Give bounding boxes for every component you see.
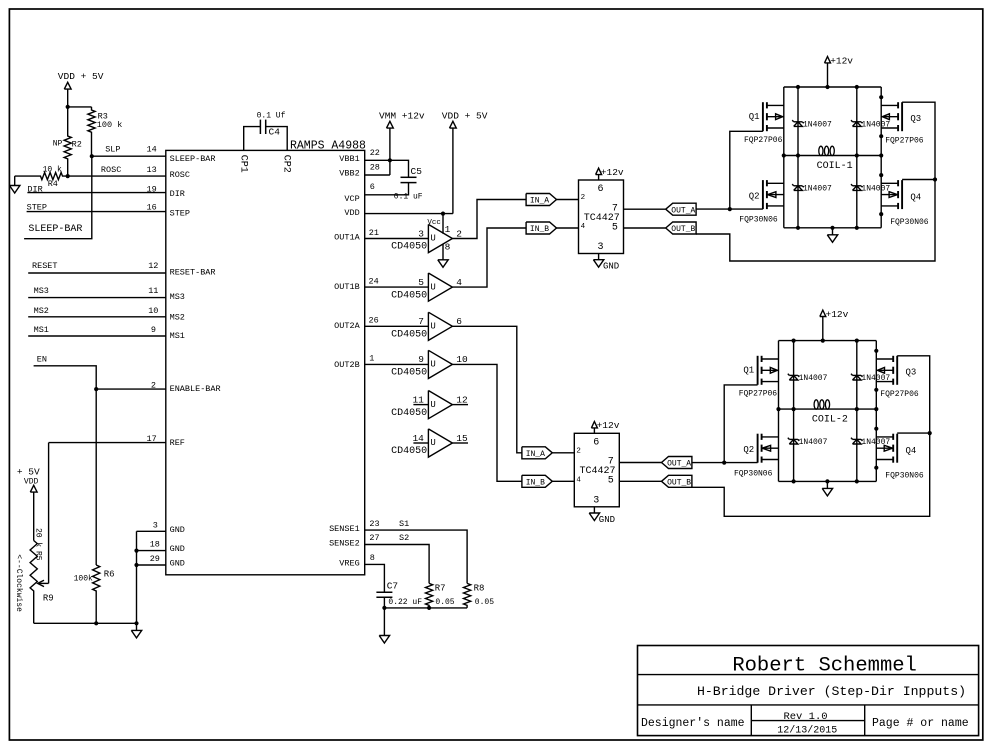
- pin number 26: [369, 316, 379, 326]
- svg-text:U: U: [430, 360, 435, 370]
- wire +12v to TC4427 (U2): [593, 428, 595, 433]
- pin name OUT1B: [334, 282, 360, 292]
- svg-text:Q4: Q4: [910, 193, 921, 203]
- diode D4 1N4007 (bridge 2): [851, 438, 863, 444]
- svg-text:H-Bridge Driver (Step-Dir Inpp: H-Bridge Driver (Step-Dir Inpputs): [697, 684, 966, 699]
- svg-text:S1: S1: [399, 519, 409, 529]
- resistor R6: [93, 565, 100, 623]
- pin name CP1 (rotated): [237, 155, 248, 173]
- diode D3 1N4007 (bridge 2): [851, 374, 863, 380]
- svg-text:Q1: Q1: [743, 366, 754, 376]
- svg-text:MS3: MS3: [34, 286, 49, 296]
- svg-text:1N4007: 1N4007: [803, 185, 832, 194]
- label R2: [72, 140, 82, 150]
- svg-text:9: 9: [418, 354, 424, 365]
- junction OUT_A / Q1 gate: [728, 207, 732, 211]
- svg-text:VCP: VCP: [344, 194, 359, 204]
- junction VDD/R2/R3: [66, 105, 70, 109]
- svg-text:2: 2: [581, 194, 586, 202]
- label Vcc (CD4050): [427, 219, 441, 227]
- title block frame: [638, 646, 979, 736]
- title text Rev 1.0: [783, 711, 827, 723]
- value 1N4007 (D1) (bridge 2): [799, 374, 828, 383]
- value FQP30N06 (Q4) (bridge 1): [890, 218, 929, 227]
- label NP (R2): [53, 140, 63, 149]
- flag OUT_B (U2): [662, 475, 692, 487]
- value FQP27P06 (Q3) (bridge 1): [885, 136, 924, 145]
- svg-text:5: 5: [418, 277, 424, 288]
- pin name ENABLE-BAR: [170, 384, 221, 394]
- pin name OUT1A: [334, 233, 360, 243]
- svg-text:OUT_B: OUT_B: [667, 479, 691, 488]
- svg-text:10: 10: [456, 354, 468, 365]
- svg-text:MS1: MS1: [34, 325, 49, 335]
- wire junction to R3 top: [68, 106, 92, 108]
- pin name SLEEP-BAR: [170, 154, 216, 164]
- wire VCP pin 6 to C5: [365, 183, 409, 195]
- svg-text:IN_A: IN_A: [526, 450, 545, 459]
- transistor Q1 FQP27P06 (bridge 1): [763, 102, 784, 131]
- net label MS1: [34, 325, 49, 335]
- net label MS3: [34, 286, 49, 296]
- pin name OUT2B: [334, 360, 360, 370]
- wire diode column right (bridge 2): [856, 341, 858, 482]
- wire buffer5 output stub: [452, 404, 468, 406]
- pin name MS2: [170, 312, 185, 322]
- junction C7 / ground bus: [382, 606, 386, 610]
- value 1N4007 (D4) (bridge 1): [861, 185, 890, 194]
- wire +12v stem (bridge 1): [827, 63, 829, 87]
- svg-text:RESET-BAR: RESET-BAR: [170, 267, 216, 277]
- svg-text:15: 15: [456, 433, 468, 444]
- svg-text:U: U: [430, 400, 435, 410]
- svg-text:1N4007: 1N4007: [799, 438, 828, 447]
- svg-text:FQP30N06: FQP30N06: [739, 216, 778, 225]
- pin number 21: [369, 228, 379, 238]
- buffer U1a CD4050: [391, 224, 462, 252]
- pin number 8 (VREG): [370, 553, 375, 563]
- flag OUT_A (U1): [666, 203, 696, 215]
- junction right leg / transistor pin (bridge 2): [874, 466, 878, 470]
- junction coil row / right diode column (bridge 1): [855, 153, 859, 157]
- svg-text:MS3: MS3: [170, 292, 185, 302]
- wire left leg (bridge 2): [778, 341, 780, 482]
- svg-text:9: 9: [151, 325, 156, 335]
- svg-text:5: 5: [612, 222, 618, 233]
- junction +12v / top rail (bridge 1): [825, 85, 829, 89]
- svg-text:ENABLE-BAR: ENABLE-BAR: [170, 384, 221, 394]
- wire OUT2B pin 1: [365, 363, 429, 365]
- wire GND bus vertical: [136, 531, 138, 630]
- svg-text:FQP30N06: FQP30N06: [734, 469, 773, 478]
- svg-text:U: U: [430, 322, 435, 332]
- svg-text:1N4007: 1N4007: [861, 185, 890, 194]
- svg-text:6: 6: [456, 316, 462, 327]
- svg-text:SENSE2: SENSE2: [329, 538, 360, 548]
- svg-text:OUT_A: OUT_A: [667, 460, 691, 469]
- wire diode column left (bridge 2): [793, 341, 795, 482]
- pin name SENSE2: [329, 538, 360, 548]
- pin number 7 (U1): [612, 203, 618, 214]
- pin number 3 (U2): [593, 496, 599, 507]
- label C5: [411, 166, 423, 177]
- junction right leg / transistor pin (bridge 2): [874, 349, 878, 353]
- svg-text:100k: 100k: [74, 574, 93, 583]
- wire SLEEP-BAR net: [24, 156, 92, 239]
- svg-text:CD4050: CD4050: [391, 408, 427, 419]
- pin number 13: [146, 165, 156, 175]
- svg-text:U: U: [430, 234, 435, 244]
- svg-text:SLP: SLP: [105, 144, 120, 154]
- pin number 19: [146, 184, 156, 194]
- svg-text:FQP27P06: FQP27P06: [744, 136, 783, 145]
- junction right leg / transistor pin (bridge 1): [879, 212, 883, 216]
- svg-text:+12v: +12v: [601, 167, 624, 178]
- svg-text:VDD + 5V: VDD + 5V: [58, 71, 104, 82]
- junction GND 29: [134, 563, 138, 567]
- svg-text:SLEEP-BAR: SLEEP-BAR: [170, 154, 216, 164]
- pin number 6 (U2): [593, 437, 599, 448]
- label R8: [474, 583, 485, 593]
- resistor R4: [15, 173, 68, 180]
- buffer U1e CD4050 (unused): [391, 391, 468, 419]
- svg-text:1N4007: 1N4007: [799, 374, 828, 383]
- junction R2 bottom / ROSC: [66, 174, 70, 178]
- pin number 3 (GND): [153, 521, 158, 531]
- pin name CP2 (rotated): [280, 155, 291, 173]
- ground symbol (bridge 2): [822, 488, 832, 496]
- svg-text:OUT1B: OUT1B: [334, 282, 360, 292]
- junction +12v / top rail (bridge 2): [821, 339, 825, 343]
- svg-text:R5: R5: [34, 551, 43, 561]
- svg-text:13: 13: [146, 165, 156, 175]
- svg-text:ROSC: ROSC: [170, 170, 190, 180]
- junction OUT_B / Q4 gate: [933, 177, 937, 181]
- ground symbol (CD4050): [438, 260, 448, 268]
- net label STEP: [27, 203, 47, 213]
- wire SENSE2 S2: [365, 545, 429, 584]
- wire top rail (bridge 2): [779, 340, 877, 342]
- wire DIR pin 19: [27, 192, 165, 194]
- svg-text:+12v: +12v: [597, 420, 620, 431]
- value 1N4007 (D4) (bridge 2): [861, 438, 890, 447]
- junction bottom rail / ground (bridge 2): [825, 479, 829, 483]
- power symbol VDD + 5V (top): [450, 121, 457, 128]
- net label VDD + 5V (top): [442, 110, 488, 121]
- svg-text:CP1: CP1: [237, 155, 248, 173]
- junction coil row / right leg (bridge 1): [879, 153, 883, 157]
- value FQP30N06 (Q2) (bridge 1): [739, 216, 778, 225]
- svg-text:CD4050: CD4050: [391, 446, 427, 457]
- svg-text:0.1 Uf: 0.1 Uf: [257, 112, 286, 121]
- net label S2: [399, 533, 409, 543]
- svg-text:10 k: 10 k: [43, 166, 62, 175]
- wire VDD pin: [365, 213, 453, 215]
- wire +12v to TC4427 (U1): [598, 175, 600, 180]
- wire buffer4 out to IN_B coil2: [452, 364, 522, 481]
- resistor R3: [88, 107, 95, 156]
- svg-text:20 k: 20 k: [34, 528, 43, 547]
- svg-text:4: 4: [576, 476, 581, 484]
- wire SENSE1 S1: [365, 530, 467, 583]
- wire OUT_B net routing (bridge 2): [692, 356, 930, 517]
- wire IN_B to pin 4 (U1): [557, 227, 579, 229]
- capacitor C5: [401, 177, 417, 182]
- net label VDD (pot): [24, 478, 39, 487]
- svg-text:IN_A: IN_A: [530, 197, 549, 206]
- diode D2 1N4007 (bridge 1): [792, 184, 804, 190]
- svg-text:0.1 uF: 0.1 uF: [394, 193, 423, 202]
- wire pin 7 to OUT_A flag (U2): [619, 462, 661, 464]
- wire C7 bottom lead: [383, 597, 385, 608]
- svg-text:1N4007: 1N4007: [803, 121, 832, 130]
- svg-text:STEP: STEP: [170, 208, 190, 218]
- wire GND pin 29: [137, 564, 166, 566]
- pin name MS1: [170, 331, 185, 341]
- wire TC4427 gnd (U1): [598, 254, 600, 260]
- svg-text:10: 10: [148, 306, 158, 316]
- pin name VBB1: [339, 154, 359, 164]
- svg-text:Robert Schemmel: Robert Schemmel: [732, 654, 917, 677]
- junction ground bus / gnd stem: [134, 621, 138, 625]
- value FQP27P06 (Q3) (bridge 2): [880, 390, 919, 399]
- svg-text:OUT1A: OUT1A: [334, 233, 360, 243]
- svg-text:VBB2: VBB2: [339, 169, 359, 179]
- svg-text:COIL-1: COIL-1: [817, 161, 853, 172]
- wire buffer5 input stub: [413, 404, 428, 406]
- pin name GND (18): [170, 544, 185, 554]
- diode D2 1N4007 (bridge 2): [788, 438, 800, 444]
- svg-text:29: 29: [150, 554, 160, 564]
- svg-text:CD4050: CD4050: [391, 290, 427, 301]
- junction right leg / transistor pin (bridge 1): [879, 173, 883, 177]
- flag IN_A (U1): [526, 194, 556, 206]
- buffer U1f CD4050 (unused): [391, 429, 468, 457]
- title text Designer's name: [641, 717, 745, 730]
- svg-text:6: 6: [598, 184, 604, 195]
- svg-text:0.22 uF: 0.22 uF: [388, 598, 422, 607]
- svg-text:ROSC: ROSC: [101, 165, 121, 175]
- svg-text:12/13/2015: 12/13/2015: [777, 724, 837, 736]
- svg-text:12: 12: [148, 261, 158, 271]
- pin name VDD: [344, 208, 359, 218]
- value 1N4007 (D1) (bridge 1): [803, 121, 832, 130]
- svg-text:24: 24: [369, 277, 379, 287]
- svg-text:IN_B: IN_B: [526, 479, 545, 488]
- svg-text:+ 5V: + 5V: [17, 467, 40, 478]
- svg-text:27: 27: [369, 533, 379, 543]
- junction EN / ENABLE-BAR: [94, 387, 98, 391]
- wire OUT1A pin 21: [365, 238, 429, 240]
- wire OUT_A to Q1 gate (bridge 2): [724, 385, 757, 463]
- transistor Q1 FQP27P06 (bridge 2): [758, 356, 779, 385]
- pin number 2: [151, 380, 156, 390]
- svg-text:MS2: MS2: [34, 306, 49, 316]
- label Q2 (bridge 2): [743, 445, 754, 455]
- wire IN_A to pin 2 (U2): [552, 452, 574, 454]
- svg-text:8: 8: [370, 553, 375, 563]
- resistor R2: [64, 107, 71, 176]
- wire SLP pin 14: [92, 155, 166, 157]
- ground symbol (bridge 1): [827, 235, 837, 243]
- wire VBB2 pin 28: [365, 174, 390, 176]
- wire REF to R9 wiper: [48, 443, 50, 584]
- svg-text:RAMPS A4988: RAMPS A4988: [290, 139, 366, 152]
- svg-text:CD4050: CD4050: [391, 242, 427, 253]
- title text Robert Schemmel: [732, 654, 917, 677]
- power symbol VDD + 5V (top left): [64, 82, 71, 89]
- buffer U1b CD4050: [391, 273, 462, 301]
- net label SLEEP-BAR: [28, 224, 82, 235]
- inductor COIL-2: [779, 400, 877, 426]
- svg-text:Q2: Q2: [749, 191, 760, 201]
- power symbol +12v (bridge 1): [825, 57, 831, 63]
- power symbol +12v (bridge 2): [820, 310, 826, 316]
- svg-text:3: 3: [153, 521, 158, 531]
- value 1N4007 (D3) (bridge 2): [861, 374, 890, 383]
- wire OUT1B pin 24: [365, 286, 429, 288]
- wire ENABLE-BAR pin 2: [96, 388, 166, 390]
- svg-text:COIL-2: COIL-2: [812, 414, 848, 425]
- flag IN_B (U2): [522, 475, 552, 487]
- wire C4 right lead: [266, 127, 288, 151]
- wire GND pin 18: [137, 550, 166, 552]
- svg-text:VDD: VDD: [24, 478, 39, 487]
- value FQP30N06 (Q2) (bridge 2): [734, 469, 773, 478]
- svg-text:7: 7: [612, 203, 618, 214]
- inductor COIL-1: [784, 146, 881, 172]
- pin number 27: [369, 533, 379, 543]
- svg-text:7: 7: [418, 316, 424, 327]
- power symbol VMM +12v: [387, 121, 394, 128]
- wire MS2 pin 10: [28, 316, 166, 318]
- svg-text:12: 12: [456, 394, 468, 405]
- value 1N4007 (D2) (bridge 1): [803, 185, 832, 194]
- svg-text:4: 4: [456, 277, 462, 288]
- pin name SENSE1: [329, 524, 360, 534]
- wire ground stub (bridge 1): [832, 228, 834, 235]
- svg-text:Q1: Q1: [749, 112, 760, 122]
- wire VREG to C7: [365, 564, 385, 592]
- net label GND (U2): [599, 515, 615, 525]
- flag IN_A (U2): [522, 447, 552, 459]
- svg-text:28: 28: [370, 163, 380, 173]
- wire buffer6 input stub: [413, 442, 428, 444]
- wire +12v stem (bridge 2): [822, 317, 824, 341]
- svg-text:CP2: CP2: [280, 155, 291, 173]
- pin number 4 (U1): [581, 223, 586, 231]
- wire pin 5 to OUT_B flag (U1): [624, 227, 666, 229]
- wire OUT2A pin 26: [365, 325, 429, 327]
- net label +12v (bridge 2): [826, 309, 849, 320]
- svg-text:6: 6: [593, 437, 599, 448]
- net label MS2: [34, 306, 49, 316]
- pin name VREG: [339, 559, 359, 569]
- wire buffer6 output stub: [452, 442, 468, 444]
- svg-text:GND: GND: [603, 262, 619, 272]
- label TC4427 (U2): [580, 466, 616, 477]
- wire R4 to ground: [14, 176, 16, 185]
- svg-text:7: 7: [608, 457, 614, 468]
- label Q1 (bridge 2): [743, 366, 754, 376]
- transistor Q4 FQP30N06 (bridge 2): [876, 434, 897, 463]
- wiper arrow R9: [38, 580, 49, 586]
- svg-text:U: U: [430, 282, 435, 292]
- transistor Q3 FQP27P06 (bridge 1): [881, 102, 902, 131]
- wire bottom rail (bridge 1): [784, 227, 881, 229]
- wire EN net: [34, 366, 97, 565]
- pin number 4 (U2): [576, 476, 581, 484]
- svg-text:FQP27P06: FQP27P06: [739, 389, 778, 398]
- pin number 9: [151, 325, 156, 335]
- wire ROSC pin 13: [68, 175, 166, 177]
- junction coil row / left leg (bridge 2): [776, 407, 780, 411]
- pin number 2 (U2): [576, 447, 581, 455]
- pin number 11: [148, 286, 158, 296]
- junction bottom rail / right diode column (bridge 1): [855, 226, 859, 230]
- net label + 5V: [17, 467, 40, 478]
- value FQP27P06 (Q1) (bridge 1): [744, 136, 783, 145]
- diode D1 1N4007 (bridge 1): [792, 120, 804, 126]
- svg-text:GND: GND: [599, 515, 615, 525]
- svg-text:1: 1: [369, 354, 374, 364]
- svg-text:14: 14: [412, 433, 424, 444]
- pin number 12: [148, 261, 158, 271]
- net label +12v (bridge 1): [830, 55, 853, 66]
- wire bottom rail (bridge 2): [779, 480, 877, 482]
- svg-text:Designer's name: Designer's name: [641, 717, 745, 730]
- label R4: [48, 179, 58, 189]
- svg-text:OUT2A: OUT2A: [334, 321, 360, 331]
- svg-text:<--Clockwise: <--Clockwise: [14, 554, 23, 612]
- junction coil row / right diode column (bridge 2): [855, 407, 859, 411]
- pin number 8 (CD4050): [445, 242, 451, 253]
- IC U? RAMPS A4988 body: [166, 150, 365, 574]
- label Q3 (bridge 1): [910, 114, 921, 124]
- svg-text:100 k: 100 k: [97, 120, 123, 130]
- wire bottom ground bus: [34, 622, 137, 624]
- junction top rail / left diode column (bridge 2): [792, 339, 796, 343]
- pin number 16: [146, 203, 156, 213]
- svg-text:FQP30N06: FQP30N06: [890, 218, 929, 227]
- junction coil row / left diode column (bridge 2): [792, 407, 796, 411]
- pin name GND (29): [170, 559, 185, 569]
- label RAMPS A4988: [290, 139, 366, 152]
- net label ROSC: [101, 165, 121, 175]
- ground symbol (C7): [379, 636, 389, 644]
- wire diode column right (bridge 1): [856, 87, 858, 228]
- junction R7 / ground bus: [427, 606, 431, 610]
- wire buffer2 out to IN_B: [452, 228, 526, 287]
- buffer U1d CD4050: [391, 350, 468, 378]
- pin number 17: [146, 434, 156, 444]
- svg-text:OUT2B: OUT2B: [334, 360, 360, 370]
- junction right leg / transistor pin (bridge 1): [879, 95, 883, 99]
- label TC4427 (U1): [584, 213, 620, 224]
- title text 12/13/2015: [777, 724, 837, 736]
- svg-text:+12v: +12v: [830, 55, 853, 66]
- power symbol +12v (U2): [591, 422, 597, 428]
- wire STEP pin 16: [27, 211, 166, 213]
- svg-text:21: 21: [369, 228, 379, 238]
- junction right leg / transistor pin (bridge 1): [879, 134, 883, 138]
- svg-text:Page # or name: Page # or name: [872, 717, 969, 730]
- junction right leg / transistor pin (bridge 2): [874, 427, 878, 431]
- wire pin 5 to OUT_B flag (U2): [619, 480, 661, 482]
- svg-text:VBB1: VBB1: [339, 154, 359, 164]
- svg-text:GND: GND: [170, 544, 185, 554]
- wire +5V to R5: [33, 492, 35, 540]
